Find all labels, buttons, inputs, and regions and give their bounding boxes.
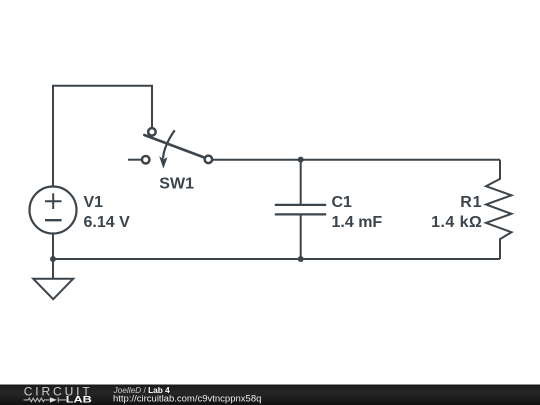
wire: top rail from switch to R1 <box>213 159 500 161</box>
capacitor C1 plates <box>275 205 326 215</box>
footer bar <box>0 385 540 405</box>
switch right throw terminal <box>205 156 213 164</box>
node: V1- / ground junction dot <box>50 256 56 262</box>
svg-text:V1: V1 <box>84 194 104 211</box>
svg-text:LAB: LAB <box>66 395 92 405</box>
switch pivot terminal <box>148 128 156 136</box>
wire: V1 top up, across, down to switch pivot <box>53 86 152 187</box>
node: C1 top junction dot <box>298 157 304 163</box>
svg-text:1.4 kΩ: 1.4 kΩ <box>431 214 482 231</box>
logo resistor-diode symbol <box>24 397 67 402</box>
svg-text:C1: C1 <box>332 194 353 211</box>
voltage source V1 <box>30 187 77 234</box>
svg-text:1.4 mF: 1.4 mF <box>332 214 383 231</box>
switch blade <box>144 135 204 157</box>
resistor R1 <box>486 160 512 259</box>
wire: switch open-throw stub <box>128 159 141 161</box>
switch left throw terminal <box>142 156 150 164</box>
ground <box>33 279 73 300</box>
switch SW1 <box>142 128 212 168</box>
switch actuation arrow <box>163 130 175 158</box>
node: C1 bottom junction dot <box>298 256 304 262</box>
wire: C1 top lead <box>300 160 302 205</box>
wire: V1 bottom lead <box>52 233 54 259</box>
svg-text:SW1: SW1 <box>159 176 194 193</box>
svg-text:http://circuitlab.com/c9vtncpp: http://circuitlab.com/c9vtncppnx58q <box>113 394 261 405</box>
svg-text:R1: R1 <box>460 194 482 211</box>
wire: bottom rail <box>53 258 500 260</box>
svg-text:6.14 V: 6.14 V <box>84 214 131 231</box>
wire: ground stem <box>52 259 54 279</box>
wire: C1 bottom lead <box>300 214 302 259</box>
